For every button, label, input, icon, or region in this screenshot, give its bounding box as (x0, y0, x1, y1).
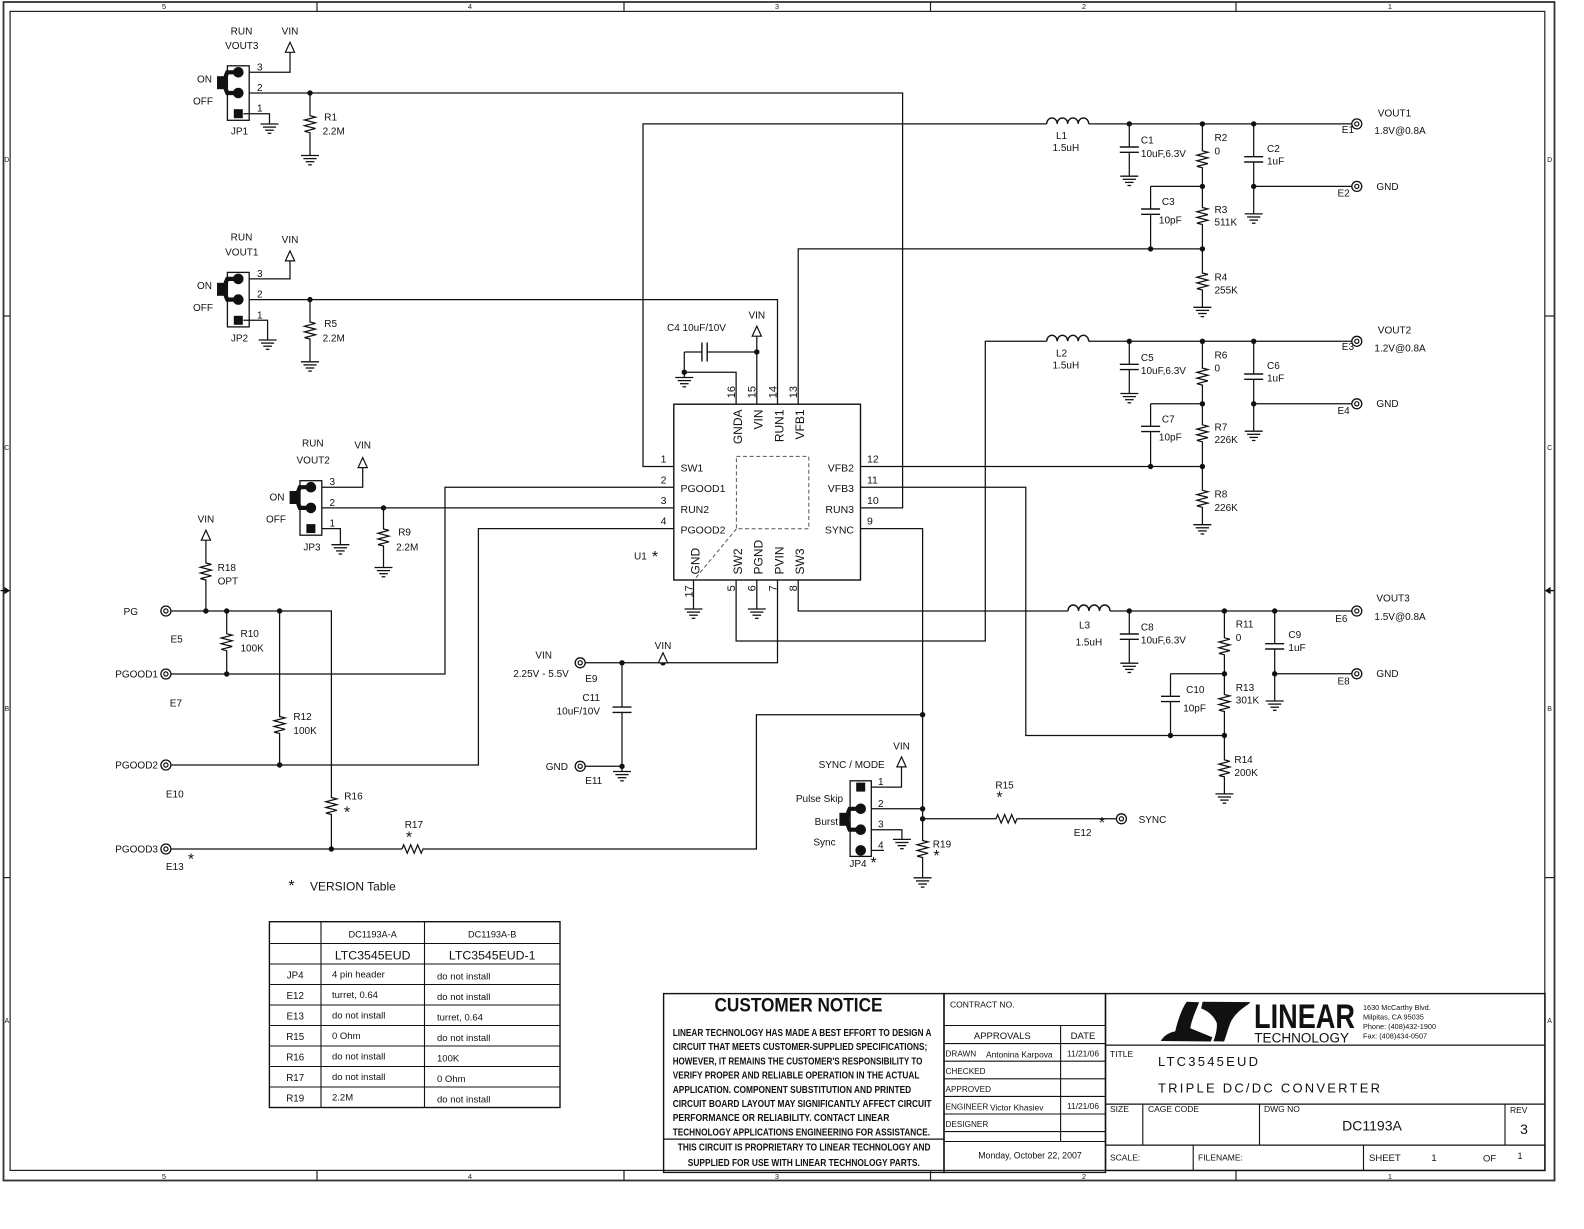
svg-text:2.2M: 2.2M (396, 542, 418, 553)
svg-text:2.2M: 2.2M (323, 333, 345, 344)
svg-text:GND: GND (1376, 182, 1398, 193)
junction VIN symbol / VIN row (660, 660, 665, 665)
svg-text:2: 2 (661, 474, 667, 486)
svg-text:ENGINEER: ENGINEER (946, 1102, 989, 1111)
svg-text:*: * (870, 855, 876, 872)
wire U1 VFB2 pin12 feedback net (861, 466, 1203, 468)
svg-text:LTC3545EUD-1: LTC3545EUD-1 (449, 949, 536, 963)
svg-text:C6: C6 (1267, 361, 1280, 372)
wire C7 top branch (1151, 403, 1203, 405)
svg-text:R2: R2 (1215, 133, 1228, 144)
note CUSTOMER NOTICE (664, 994, 944, 1173)
junction C6 / VOUT2 (1251, 339, 1256, 344)
svg-text:R5: R5 (324, 319, 337, 330)
junction R7/R8 node (1200, 464, 1205, 469)
svg-text:PG: PG (124, 607, 139, 618)
svg-text:PGOOD1: PGOOD1 (115, 669, 158, 680)
capacitor C10 10pF (1170, 674, 1172, 697)
svg-text:DWG NO: DWG NO (1264, 1104, 1300, 1114)
junction C11 / VIN row (619, 660, 624, 665)
junction C8 / VOUT3 (1127, 608, 1132, 613)
svg-text:3: 3 (330, 477, 336, 488)
svg-text:3: 3 (1520, 1121, 1528, 1137)
svg-text:R11: R11 (1236, 620, 1254, 631)
svg-text:RUN: RUN (302, 439, 324, 450)
resistor R12 100K (274, 611, 285, 765)
capacitor C11 10uF/10V (621, 663, 623, 707)
junction R12 / PGOOD2 row (277, 762, 282, 767)
svg-text:E12: E12 (1074, 828, 1092, 839)
svg-text:SUPPLIED FOR USE WITH LINEAR T: SUPPLIED FOR USE WITH LINEAR TECHNOLOGY … (688, 1157, 920, 1169)
svg-text:100K: 100K (437, 1054, 460, 1065)
svg-text:GND: GND (1376, 669, 1398, 680)
wire U1 SW1 pin1 to L1 (643, 124, 1047, 467)
svg-text:L1: L1 (1056, 131, 1068, 142)
svg-text:D: D (4, 157, 9, 164)
svg-text:VERSION Table: VERSION Table (310, 880, 396, 894)
svg-text:E4: E4 (1338, 406, 1351, 417)
svg-text:VIN: VIN (354, 441, 371, 452)
wire JP4 pin2 to SYNC net (871, 808, 922, 810)
ground below R14 (1215, 793, 1233, 795)
wire JP2 pin1 to ground (243, 320, 267, 340)
svg-text:*: * (996, 790, 1002, 807)
svg-text:GND: GND (1376, 399, 1398, 410)
junction R18 / PG row (203, 608, 208, 613)
wire U1 SYNC pin9 net (861, 529, 923, 819)
wire PG row (171, 611, 331, 790)
junction C6 / GND row (1251, 401, 1256, 406)
VIN power symbol at E9 (658, 653, 667, 663)
svg-text:2.25V - 5.5V: 2.25V - 5.5V (513, 669, 569, 680)
wire JP3 pin3 to VIN (322, 468, 363, 488)
svg-text:E1: E1 (1342, 125, 1355, 136)
ground below C2 (1253, 186, 1255, 214)
svg-text:do not install: do not install (332, 1052, 385, 1063)
junction R10 / PG row (224, 608, 229, 613)
svg-text:DATE: DATE (1071, 1031, 1096, 1042)
svg-text:Antonina Karpova: Antonina Karpova (986, 1050, 1053, 1060)
svg-text:R10: R10 (241, 629, 260, 640)
svg-text:C9: C9 (1288, 630, 1301, 641)
svg-text:PVIN: PVIN (772, 546, 786, 574)
resistor R10 100K (221, 611, 232, 674)
wire VIN input row to U1 PVIN pin7 (585, 580, 777, 663)
svg-text:SW3: SW3 (793, 548, 807, 574)
resistor R19 2.2M (917, 819, 928, 878)
resistor R5 2.2M (305, 300, 316, 362)
title block frame (1106, 994, 1546, 1171)
junction C5 / VOUT2 (1127, 339, 1132, 344)
svg-text:R18: R18 (218, 563, 237, 574)
svg-text:2: 2 (257, 83, 263, 94)
resistor R18 OPT (200, 540, 211, 611)
svg-text:E7: E7 (170, 698, 183, 709)
svg-text:R13: R13 (1236, 683, 1255, 694)
svg-text:9: 9 (867, 516, 873, 528)
svg-text:APPLICATION. COMPONENT SUBSTI: APPLICATION. COMPONENT SUBSTITUTION AND … (673, 1084, 912, 1096)
svg-text:11/21/06: 11/21/06 (1067, 1101, 1099, 1111)
jumper JP1 (RUN VOUT3) (227, 66, 249, 121)
svg-text:JP1: JP1 (231, 126, 249, 137)
svg-text:C3: C3 (1162, 197, 1175, 208)
capacitor C5 10uF,6.3V (1128, 341, 1130, 364)
svg-text:4: 4 (878, 840, 884, 851)
junction JP3 pin2 / R9 (381, 505, 386, 510)
wire JP4 pin3 to ground (871, 830, 902, 840)
resistor R6 0 (1197, 341, 1208, 404)
svg-text:100K: 100K (293, 726, 317, 737)
svg-text:VFB3: VFB3 (828, 483, 854, 495)
svg-text:10uF,6.3V: 10uF,6.3V (1141, 366, 1186, 377)
ground at JP1 pin1 (261, 123, 279, 125)
svg-text:C7: C7 (1162, 414, 1175, 425)
junction R10 / PGOOD1 row (224, 671, 229, 676)
jumper JP2 (RUN VOUT1) (227, 272, 249, 327)
svg-text:VOUT3: VOUT3 (1376, 593, 1410, 604)
svg-text:C: C (1547, 445, 1552, 452)
svg-text:1: 1 (1431, 1153, 1436, 1164)
svg-text:R17: R17 (286, 1073, 304, 1084)
svg-text:1uF: 1uF (1288, 643, 1305, 654)
svg-text:3: 3 (257, 269, 263, 280)
svg-text:3: 3 (661, 495, 667, 507)
resistor R9 2.2M (378, 508, 389, 568)
svg-text:do not install: do not install (437, 972, 490, 983)
svg-text:PERFORMANCE OR RELIABILITY. C: PERFORMANCE OR RELIABILITY. CONTACT LINE… (673, 1112, 890, 1124)
svg-text:B: B (4, 706, 9, 713)
svg-text:JP4: JP4 (849, 859, 867, 870)
svg-text:10: 10 (867, 495, 879, 507)
svg-text:R16: R16 (286, 1052, 305, 1063)
wire E11 to ground (585, 765, 622, 767)
junction C4 / VIN (754, 349, 759, 354)
svg-text:VOUT1: VOUT1 (225, 248, 259, 259)
svg-text:PGND: PGND (752, 539, 766, 574)
wire U1 SW3 pin8 to L3 (798, 580, 1068, 611)
svg-text:301K: 301K (1236, 696, 1260, 707)
ground below R9 (375, 567, 393, 569)
svg-text:C5: C5 (1141, 353, 1154, 364)
svg-text:*: * (1099, 815, 1105, 832)
svg-text:10pF: 10pF (1183, 703, 1206, 714)
wire VOUT3 row (1110, 610, 1352, 612)
VIN power symbol at JP1 (285, 42, 294, 52)
svg-text:SW2: SW2 (731, 548, 745, 574)
svg-text:*: * (652, 549, 658, 566)
svg-text:PGOOD2: PGOOD2 (115, 760, 158, 771)
svg-text:10uF,6.3V: 10uF,6.3V (1141, 636, 1186, 647)
junction R3/R4 node (1200, 246, 1205, 251)
svg-text:2: 2 (257, 290, 263, 301)
svg-text:OFF: OFF (193, 97, 213, 108)
svg-text:E6: E6 (1335, 614, 1348, 625)
svg-text:B: B (1547, 706, 1552, 713)
VIN power symbol at JP4 (897, 757, 906, 767)
svg-text:1630 McCarthy Blvd.: 1630 McCarthy Blvd. (1363, 1003, 1431, 1012)
junction R16 / PGOOD3 row (329, 846, 334, 851)
resistor R2 0 (1197, 124, 1208, 186)
junction C4 ground node (682, 370, 687, 375)
junction R15 row / SYNC net (920, 816, 925, 821)
svg-text:R3: R3 (1215, 205, 1228, 216)
svg-text:1.8V@0.8A: 1.8V@0.8A (1374, 126, 1426, 137)
capacitor C3 10pF (1150, 186, 1152, 209)
svg-text:R7: R7 (1215, 422, 1228, 433)
svg-text:DRAWN: DRAWN (946, 1050, 977, 1059)
svg-text:*: * (344, 805, 350, 822)
svg-text:3: 3 (775, 2, 779, 11)
svg-text:E8: E8 (1338, 676, 1351, 687)
junction C7 / VFB2 row (1148, 464, 1153, 469)
svg-text:226K: 226K (1215, 435, 1239, 446)
svg-text:2: 2 (878, 799, 884, 810)
svg-text:*: * (933, 848, 939, 865)
svg-text:HOWEVER, IT REMAINS THE CUSTOM: HOWEVER, IT REMAINS THE CUSTOMER'S RESPO… (673, 1055, 923, 1067)
svg-text:REV: REV (1510, 1105, 1528, 1115)
svg-text:OFF: OFF (193, 303, 213, 314)
svg-text:DESIGNER: DESIGNER (946, 1120, 989, 1129)
ground below R5 (301, 361, 319, 363)
junction C2 / GND row (1251, 184, 1256, 189)
ground at C11/E11 (621, 766, 623, 771)
terminal E1 (VOUT1) (1352, 119, 1362, 129)
svg-text:1: 1 (878, 777, 884, 788)
wire GND row VOUT1 (1254, 185, 1352, 187)
svg-text:GNDA: GNDA (731, 410, 745, 445)
ground below R4 (1193, 306, 1211, 308)
capacitor C9 1uF (1274, 611, 1276, 644)
svg-text:1uF: 1uF (1267, 156, 1284, 167)
terminal E11 (GND) (575, 761, 585, 771)
svg-text:VFB1: VFB1 (793, 409, 807, 439)
svg-text:E9: E9 (585, 674, 598, 685)
svg-text:VOUT2: VOUT2 (297, 456, 331, 467)
svg-text:10pF: 10pF (1159, 215, 1182, 226)
VIN power symbol at C4 (752, 326, 761, 336)
terminal E8 (GND) (1352, 669, 1362, 679)
svg-text:11: 11 (867, 474, 878, 486)
junction R2/R3/C3 node (1200, 184, 1205, 189)
svg-text:C8: C8 (1141, 622, 1154, 633)
wire C3 top branch (1151, 185, 1203, 187)
resistor R15 0 Ohm (horizontal) (923, 815, 1117, 823)
svg-text:E12: E12 (286, 991, 303, 1002)
svg-text:L3: L3 (1079, 620, 1091, 631)
svg-text:1: 1 (257, 310, 263, 321)
inductor L2 1.5uH (1047, 335, 1089, 341)
inductor L1 1.5uH (1047, 118, 1089, 124)
ground at U1 PGND pin (748, 608, 766, 610)
junction C1 / VOUT1 (1127, 121, 1132, 126)
svg-text:CIRCUIT THAT MEETS CUSTOMER-SU: CIRCUIT THAT MEETS CUSTOMER-SUPPLIED SPE… (673, 1041, 928, 1053)
svg-text:E11: E11 (585, 776, 602, 787)
resistor R3 511K (1197, 186, 1208, 249)
svg-text:0 Ohm: 0 Ohm (437, 1074, 466, 1085)
svg-text:L2: L2 (1056, 348, 1068, 359)
svg-text:GND: GND (688, 548, 702, 575)
junction JP1 pin2 / R1 (307, 90, 312, 95)
terminal E5 (PG) (161, 606, 171, 616)
svg-text:1.5uH: 1.5uH (1053, 143, 1080, 154)
svg-text:11/21/06: 11/21/06 (1067, 1048, 1099, 1058)
resistor R17 (horizontal) (402, 845, 425, 853)
svg-text:10pF: 10pF (1159, 433, 1182, 444)
svg-text:CAGE CODE: CAGE CODE (1148, 1104, 1199, 1114)
svg-text:VIN: VIN (282, 27, 299, 38)
svg-text:*: * (406, 830, 412, 847)
svg-text:1: 1 (1517, 1151, 1522, 1161)
svg-text:5: 5 (162, 2, 166, 11)
svg-text:R1: R1 (324, 112, 337, 123)
resistor R4 255K (1197, 249, 1208, 307)
svg-text:RUN2: RUN2 (681, 504, 710, 516)
junction R12 / PG row (277, 608, 282, 613)
svg-text:VFB2: VFB2 (828, 462, 854, 474)
svg-text:C10: C10 (1186, 685, 1205, 696)
svg-text:SW1: SW1 (681, 462, 704, 474)
svg-text:SYNC / MODE: SYNC / MODE (819, 760, 885, 771)
svg-text:3: 3 (878, 820, 884, 831)
svg-text:RUN: RUN (231, 232, 253, 243)
svg-text:APPROVALS: APPROVALS (974, 1031, 1031, 1042)
wire U1 pin6 PGND to ground (756, 580, 758, 609)
svg-text:THIS CIRCUIT IS PROPRIETARY TO: THIS CIRCUIT IS PROPRIETARY TO LINEAR TE… (678, 1142, 931, 1154)
svg-text:C1: C1 (1141, 136, 1154, 147)
jumper JP3 (RUN VOUT2) (300, 481, 322, 536)
ground below R19 (914, 877, 932, 879)
terminal E4 (GND) (1352, 399, 1362, 409)
svg-text:Monday, October 22, 2007: Monday, October 22, 2007 (978, 1151, 1082, 1161)
capacitor C6 1uF (1253, 341, 1255, 374)
junction C11 / E11 row (619, 764, 624, 769)
svg-text:1: 1 (330, 519, 336, 530)
svg-text:VIN: VIN (748, 311, 765, 322)
wire GND row VOUT2 (1254, 403, 1352, 405)
VIN power symbol at JP2 (285, 251, 294, 261)
terminal E7 (PGOOD1) (161, 669, 171, 679)
svg-text:3: 3 (775, 1172, 779, 1181)
svg-text:1: 1 (661, 454, 667, 466)
wire U1 pin17 GND to ground (693, 580, 695, 609)
svg-text:R6: R6 (1215, 350, 1228, 361)
svg-text:R14: R14 (1234, 755, 1253, 766)
svg-text:turret, 0.64: turret, 0.64 (437, 1013, 483, 1024)
wire JP1 pin3 to VIN (249, 52, 290, 72)
inductor L3 1.5uH (1068, 605, 1110, 611)
svg-text:LTC3545EUD: LTC3545EUD (1158, 1054, 1258, 1069)
svg-text:VERIFY PROPER AND RELIABLE OPE: VERIFY PROPER AND RELIABLE OPERATION IN … (673, 1070, 920, 1082)
svg-text:VIN: VIN (655, 641, 672, 652)
VIN power symbol at R18 (201, 530, 210, 540)
svg-text:U1: U1 (634, 552, 647, 563)
junction R13/R14 node (1222, 733, 1227, 738)
svg-text:2: 2 (330, 498, 336, 509)
junction R6 / VOUT2 (1200, 339, 1205, 344)
svg-text:1.5uH: 1.5uH (1053, 360, 1080, 371)
svg-text:Victor Khasiev: Victor Khasiev (990, 1102, 1044, 1112)
svg-text:VIN: VIN (535, 651, 552, 662)
svg-text:VIN: VIN (282, 235, 299, 246)
wire U1 VFB1 pin13 feedback net (798, 249, 1202, 404)
terminal E3 (VOUT2) (1352, 336, 1362, 346)
svg-text:TRIPLE DC/DC CONVERTER: TRIPLE DC/DC CONVERTER (1158, 1081, 1380, 1096)
wire PGOOD2 net (171, 529, 674, 765)
ground below C4 (683, 372, 685, 377)
terminal E9 (VIN input) (575, 658, 585, 668)
svg-text:R16: R16 (344, 792, 363, 803)
svg-text:10uF/10V: 10uF/10V (557, 707, 601, 718)
svg-text:TECHNOLOGY APPLICATIONS ENGINE: TECHNOLOGY APPLICATIONS ENGINEERING FOR … (673, 1126, 930, 1138)
wire C10 top branch (1171, 673, 1225, 675)
svg-text:D: D (1547, 157, 1552, 164)
capacitor C4 10uF/10V (684, 351, 702, 353)
svg-text:DC1193A-B: DC1193A-B (468, 930, 516, 940)
svg-text:2.2M: 2.2M (332, 1093, 353, 1104)
wire PGOOD1 net (171, 487, 674, 674)
svg-text:R19: R19 (286, 1093, 304, 1104)
svg-text:RUN: RUN (231, 26, 253, 37)
svg-text:10uF,6.3V: 10uF,6.3V (1141, 149, 1186, 160)
svg-text:R12: R12 (293, 712, 312, 723)
capacitor C8 10uF,6.3V (1128, 611, 1130, 634)
svg-text:SYNC: SYNC (825, 525, 855, 537)
ground below R1 (301, 155, 319, 157)
wire U1 VFB3 pin11 feedback net (861, 487, 1225, 735)
wire VOUT2 row (1089, 340, 1352, 342)
svg-text:Sync: Sync (813, 838, 835, 849)
svg-text:do not install: do not install (437, 1095, 490, 1106)
wire U1 SW2 pin5 to L2 (736, 341, 1047, 641)
junction C9 / VOUT3 (1272, 608, 1277, 613)
terminal E6 (VOUT3) (1352, 606, 1362, 616)
svg-text:CONTRACT NO.: CONTRACT NO. (950, 1000, 1015, 1010)
terminal E2 (GND) (1352, 181, 1362, 191)
svg-text:APPROVED: APPROVED (946, 1085, 992, 1094)
svg-text:0: 0 (1215, 364, 1221, 375)
svg-text:0: 0 (1236, 633, 1242, 644)
svg-text:14: 14 (767, 386, 779, 398)
junction C9 / GND row (1272, 671, 1277, 676)
svg-text:1: 1 (257, 104, 263, 115)
resistor R13 301K (1219, 674, 1230, 736)
svg-text:do not install: do not install (332, 1072, 385, 1083)
wire GND row VOUT3 (1275, 673, 1352, 675)
svg-text:E2: E2 (1338, 189, 1351, 200)
svg-text:R9: R9 (398, 528, 411, 539)
ground at JP3 pin1 (331, 544, 349, 546)
svg-text:PGOOD1: PGOOD1 (681, 483, 726, 495)
junction C3 / VFB1 row (1148, 246, 1153, 251)
wire JP2 pin3 to VIN (249, 261, 290, 279)
svg-text:2.2M: 2.2M (323, 127, 345, 138)
junction R6/R7/C7 node (1200, 401, 1205, 406)
svg-text:*: * (288, 878, 294, 895)
resistor R11 0 (1219, 611, 1230, 674)
ground at JP4 pin3 (893, 838, 911, 840)
capacitor C7 10pF (1150, 404, 1152, 427)
svg-text:SHEET: SHEET (1369, 1153, 1401, 1164)
svg-text:226K: 226K (1215, 503, 1239, 514)
svg-text:1.5uH: 1.5uH (1076, 637, 1103, 648)
wire JP4 pin1 to VIN (871, 767, 901, 787)
svg-text:OF: OF (1483, 1154, 1496, 1165)
svg-text:CHECKED: CHECKED (946, 1067, 986, 1076)
svg-text:Fax: (408)434-0507: Fax: (408)434-0507 (1363, 1032, 1427, 1041)
svg-text:JP4: JP4 (287, 970, 304, 981)
svg-text:VIN: VIN (752, 410, 766, 430)
table VERSION table (269, 922, 560, 1108)
